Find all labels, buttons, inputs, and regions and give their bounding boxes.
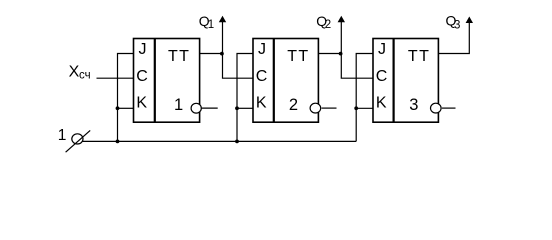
wire: J/K tie vertical of U2 (237, 54, 253, 142)
svg-text:Х: Х (69, 64, 80, 81)
svg-text:сч: сч (79, 69, 91, 81)
wire: Q2 vertical (arrow to C of U3) (341, 22, 373, 79)
junction dot at U1 Q branch (220, 52, 224, 56)
wire: inverse output stub of U3 (442, 107, 456, 109)
svg-text:K: K (376, 95, 387, 112)
svg-text:1: 1 (208, 19, 214, 31)
flip-flop U3 box (373, 39, 438, 123)
wire: inverse output stub of U1 (202, 107, 218, 109)
flip-flop U2 box (253, 39, 318, 123)
svg-text:C: C (136, 68, 148, 85)
U3 J/C/K column divider (393, 39, 395, 123)
svg-text:3: 3 (409, 96, 418, 114)
junction dot at U2 Q branch (339, 52, 343, 56)
flip-flop U1 box (134, 39, 200, 123)
svg-text:K: K (136, 95, 147, 112)
svg-text:TT: TT (408, 48, 430, 65)
junction dot at U1 K tap (116, 106, 120, 110)
svg-text:K: K (256, 95, 267, 112)
svg-text:J: J (139, 41, 147, 58)
wire: logic-1 bottom rail (82, 140, 356, 142)
svg-text:J: J (258, 41, 266, 58)
wire: J/K tie vertical of U1 (118, 54, 134, 142)
svg-text:C: C (256, 68, 268, 85)
wire: Q output of U2 (318, 53, 341, 55)
junction dot at U3 K tap (354, 106, 358, 110)
svg-text:TT: TT (168, 48, 190, 65)
inverter circle on U1 output (191, 103, 201, 113)
arrowhead Q1 (219, 16, 226, 22)
U1 J/C/K column divider (154, 39, 156, 123)
junction dot at U2 K tap (235, 106, 239, 110)
inverter circle on U3 output (431, 103, 442, 113)
terminal circle of logic-1 input (72, 134, 83, 144)
svg-text:TT: TT (287, 48, 309, 65)
junction dot at rail / U2 tie (235, 140, 239, 144)
wire: Q1 vertical (arrow to C of U2) (223, 22, 254, 79)
svg-text:2: 2 (289, 96, 298, 114)
svg-text:J: J (378, 41, 386, 58)
svg-text:1: 1 (174, 96, 183, 114)
wire: K input of U2 (237, 107, 253, 109)
wire: K input of U1 (118, 107, 134, 109)
svg-text:3: 3 (454, 19, 460, 31)
inverter circle on U2 output (310, 103, 321, 113)
wire: Q output of U1 (200, 53, 223, 55)
svg-text:C: C (376, 68, 388, 85)
wire: Xsc input to C of U1 (97, 77, 134, 79)
junction dot at rail / U1 tie (116, 140, 120, 144)
svg-text:2: 2 (325, 19, 331, 31)
U2 J/C/K column divider (273, 39, 275, 123)
svg-text:1: 1 (58, 127, 67, 144)
wire: J/K tie vertical of U3 (356, 54, 373, 142)
wire: K input of U3 (356, 107, 373, 109)
terminal slash (66, 130, 91, 152)
arrowhead Q3 (466, 17, 473, 24)
arrowhead Q2 (338, 16, 345, 22)
wire: inverse output stub of U2 (322, 107, 337, 109)
wire: Q output of U3 to Q3 arrow (438, 22, 469, 54)
